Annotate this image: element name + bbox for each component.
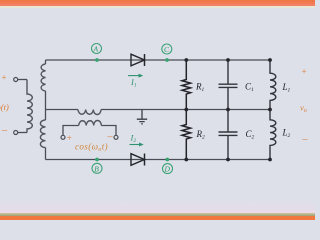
svg-text:R2: R2 xyxy=(196,129,206,141)
svg-text:C1: C1 xyxy=(245,82,254,94)
svg-text:D: D xyxy=(164,165,171,174)
transformer secondary upper winding xyxy=(41,64,45,91)
junction dot bottom L xyxy=(268,158,272,162)
ground xyxy=(137,110,147,124)
node A circled label xyxy=(92,44,102,54)
current arrow I2 xyxy=(130,144,141,146)
node B circled label xyxy=(92,163,102,173)
resistor R1 xyxy=(182,60,191,110)
inductor L1 xyxy=(270,60,276,110)
node D circled label xyxy=(163,164,173,174)
wire top rail A-C xyxy=(46,59,271,61)
junction dot bottom R xyxy=(184,158,188,162)
junction dot top C xyxy=(226,58,230,62)
junction dot mid L xyxy=(268,108,272,112)
svg-text:I1: I1 xyxy=(130,77,137,89)
svg-text:vo: vo xyxy=(300,103,307,115)
resistor R2 xyxy=(182,110,191,160)
wire bottom rail B-D xyxy=(46,159,271,161)
node B dot xyxy=(95,158,99,162)
transformer secondary vertical wire xyxy=(45,60,47,160)
inductor pickup sense coil xyxy=(79,121,102,126)
capacitor C2 xyxy=(219,110,238,160)
terminal primary bottom xyxy=(14,131,18,135)
svg-text:–: – xyxy=(1,125,8,136)
terminal primary top xyxy=(14,78,18,82)
wire pickup left lead xyxy=(63,126,79,136)
node D dot xyxy=(165,158,169,162)
transformer primary winding xyxy=(27,80,32,133)
junction dot top L xyxy=(268,58,272,62)
node C circled label xyxy=(162,44,172,54)
junction dot bottom C xyxy=(226,158,230,162)
svg-text:L2: L2 xyxy=(282,128,291,140)
diode D2 xyxy=(131,154,145,166)
svg-text:C2: C2 xyxy=(246,129,255,141)
svg-text:B: B xyxy=(94,164,99,173)
node C dot xyxy=(165,58,169,62)
wire middle rail (center tap) xyxy=(46,109,271,111)
svg-text:C: C xyxy=(164,45,170,54)
inductor middle-wire coupling coil xyxy=(78,110,101,115)
svg-text:A: A xyxy=(93,45,99,54)
wire pickup right lead xyxy=(101,126,116,136)
current arrow I1 xyxy=(128,75,140,77)
svg-text:+: + xyxy=(67,133,72,143)
wire primary bottom lead xyxy=(18,132,27,134)
svg-text:L1: L1 xyxy=(282,82,291,94)
svg-text:+: + xyxy=(302,67,307,77)
svg-text:+: + xyxy=(2,73,7,83)
svg-text:R1: R1 xyxy=(195,82,205,94)
node A dot xyxy=(95,58,99,62)
svg-text:–: – xyxy=(302,134,309,145)
junction dot top R xyxy=(184,58,188,62)
svg-text:I2: I2 xyxy=(130,133,137,145)
svg-text:cos(ωot): cos(ωot) xyxy=(75,142,108,154)
junction dot mid R xyxy=(184,108,188,112)
diode D1 xyxy=(131,54,145,66)
capacitor C1 xyxy=(219,60,238,110)
junction dot mid C xyxy=(226,108,230,112)
svg-text:o(t): o(t) xyxy=(0,102,9,112)
wire primary top lead xyxy=(18,79,27,81)
inductor L2 xyxy=(270,110,276,160)
terminal pickup - xyxy=(114,135,118,139)
terminal pickup + xyxy=(61,135,65,139)
transformer secondary lower winding xyxy=(40,120,45,148)
